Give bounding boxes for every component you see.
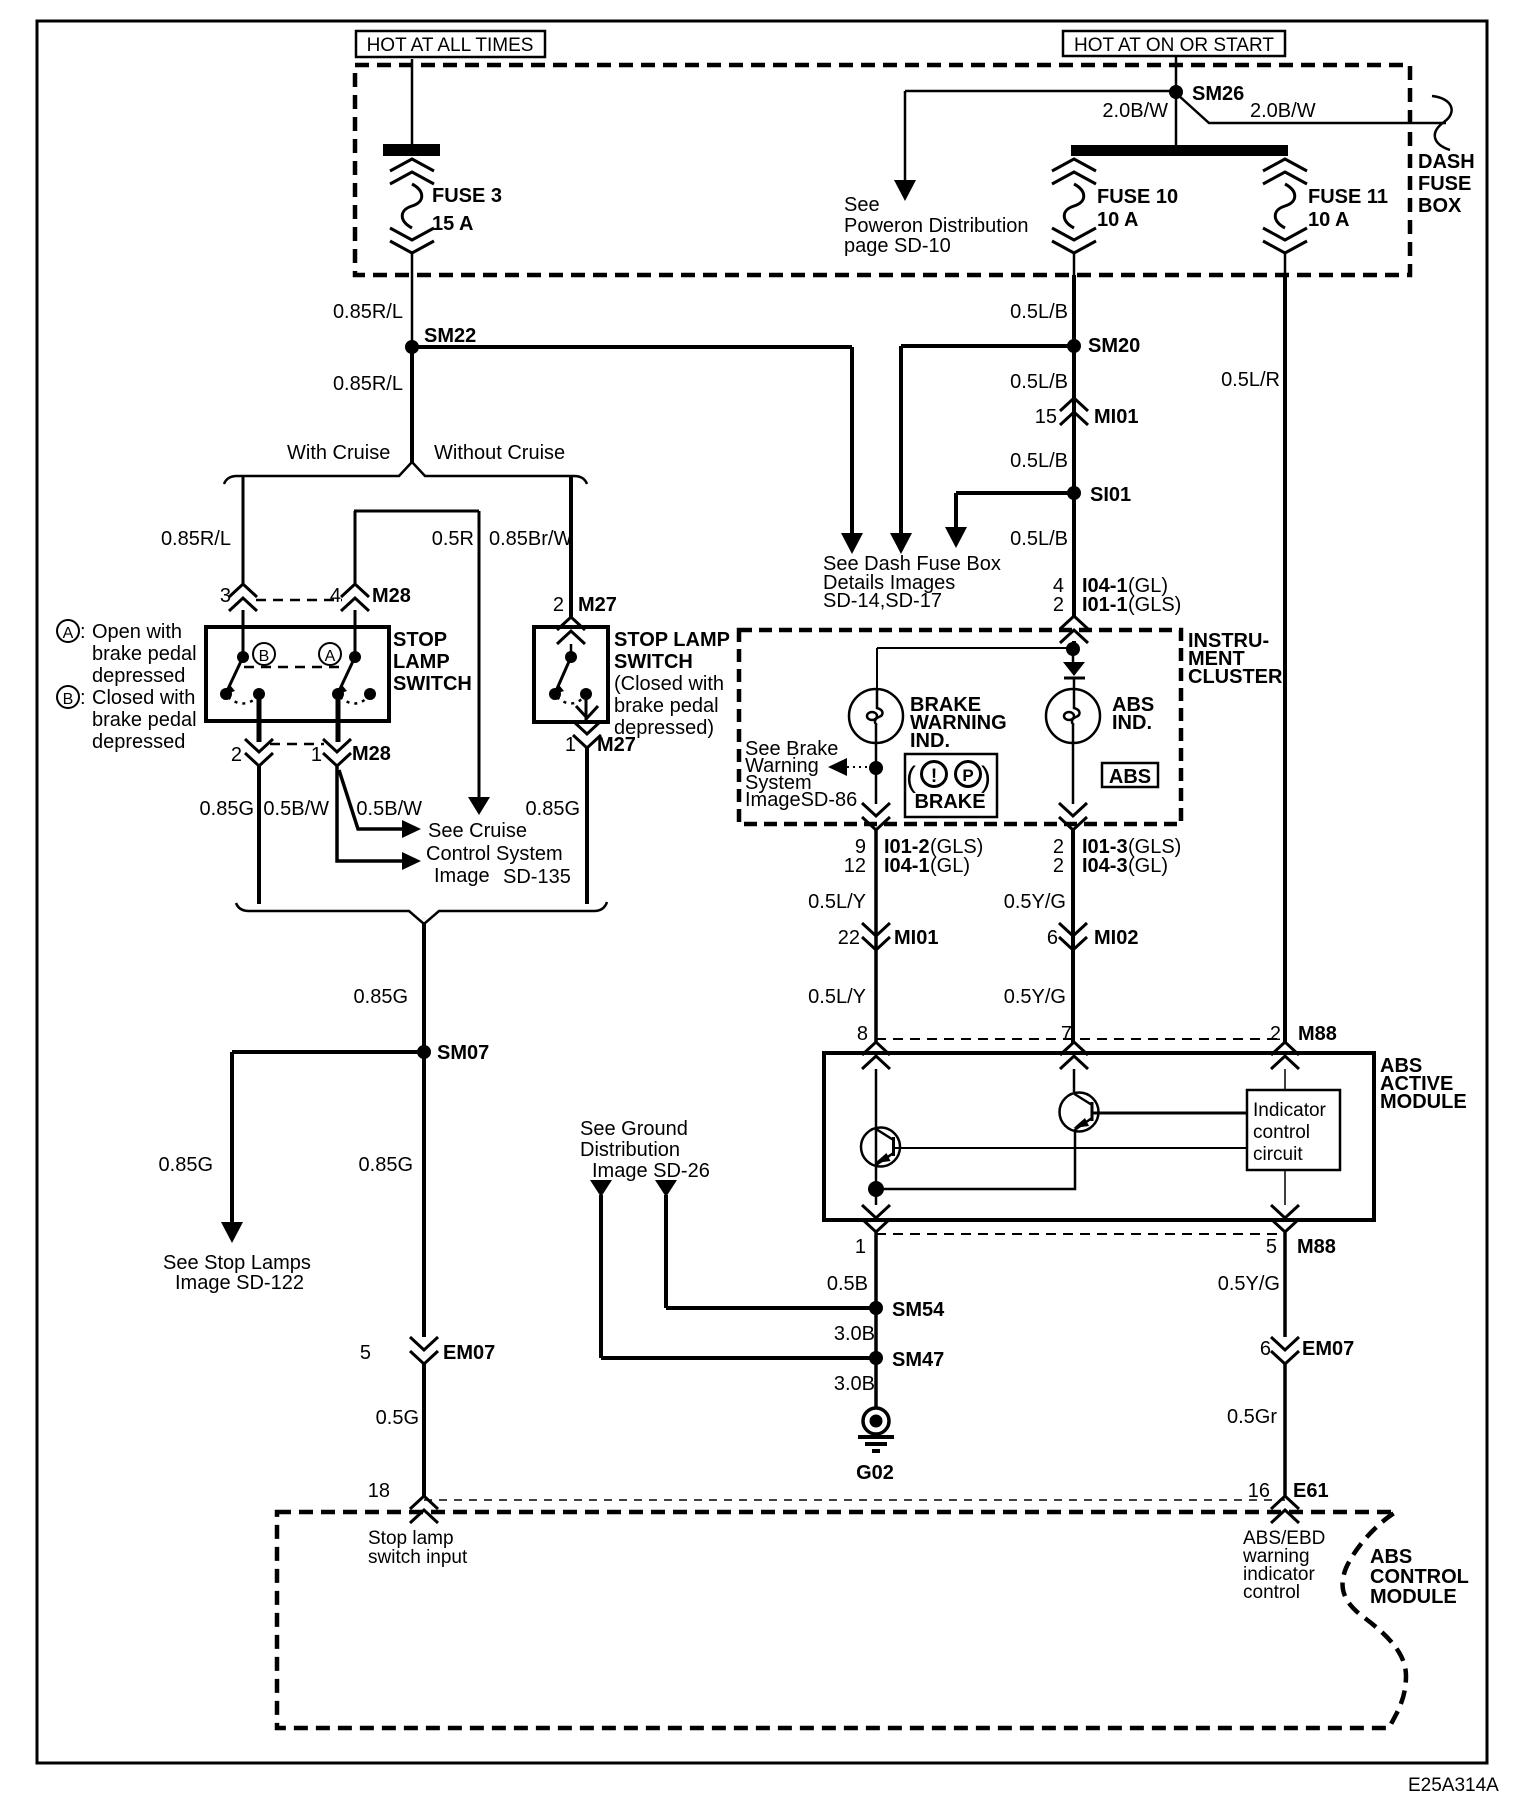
arrow see cruise 1 xyxy=(402,820,421,838)
label HOT AT ALL TIMES xyxy=(356,31,545,57)
connector cluster out brake xyxy=(862,803,890,830)
base wire Q2 to indicator control xyxy=(1092,1112,1247,1115)
connector dashes M88 bottom xyxy=(876,1233,1285,1235)
svg-text:SM07: SM07 xyxy=(437,1042,489,1064)
svg-text:STOP LAMP: STOP LAMP xyxy=(614,629,730,651)
svg-text:10 A: 10 A xyxy=(1308,209,1350,231)
svg-text:3.0B: 3.0B xyxy=(834,1323,875,1345)
svg-text:IND.: IND. xyxy=(910,730,950,752)
wire pin8 through transistor Q1 xyxy=(875,1069,878,1189)
node SM20 xyxy=(1067,339,1081,353)
svg-text:B: B xyxy=(63,691,74,708)
svg-text:Closed with: Closed with xyxy=(92,687,195,709)
svg-text:Image SD-122: Image SD-122 xyxy=(175,1272,304,1294)
svg-text:MI02: MI02 xyxy=(1094,927,1138,949)
wire EM07 to E61 xyxy=(1283,1364,1287,1496)
svg-text:See Cruise: See Cruise xyxy=(428,820,527,842)
svg-text:0.5Gr: 0.5Gr xyxy=(1227,1406,1277,1428)
svg-text:10 A: 10 A xyxy=(1097,209,1139,231)
svg-text:SM47: SM47 xyxy=(892,1349,944,1371)
node Q1 emitter junction xyxy=(868,1181,884,1197)
svg-text:control: control xyxy=(1253,1122,1310,1143)
wire switch M27 out xyxy=(585,694,588,723)
connector cluster out ABS xyxy=(1059,803,1087,830)
arrow see cruise 2 xyxy=(402,852,421,870)
node cluster feed xyxy=(1066,642,1080,656)
svg-text:2.0B/W: 2.0B/W xyxy=(1250,100,1316,122)
fuse bus bar xyxy=(1071,145,1288,156)
svg-text:CONTROL: CONTROL xyxy=(1370,1566,1469,1588)
svg-text:SM22: SM22 xyxy=(424,325,476,347)
fuse F11 xyxy=(1263,159,1307,184)
svg-text:switch input: switch input xyxy=(368,1547,468,1568)
svg-text:8: 8 xyxy=(857,1023,868,1045)
svg-text:2: 2 xyxy=(553,594,564,616)
switch M27 out arrow xyxy=(576,706,598,718)
svg-text:MI01: MI01 xyxy=(1094,406,1138,428)
arrow see stop lamps xyxy=(221,1222,243,1243)
wire fuse11 column xyxy=(1283,275,1287,1042)
svg-text:0.5L/Y: 0.5L/Y xyxy=(808,986,866,1008)
wire ground dist 1 xyxy=(599,1195,603,1358)
svg-text:2.0B/W: 2.0B/W xyxy=(1102,100,1168,122)
svg-text:0.5B/W: 0.5B/W xyxy=(263,798,329,820)
svg-text:0.5L/R: 0.5L/R xyxy=(1221,369,1280,391)
wire SM07 down xyxy=(422,1052,426,1337)
connector dashes M88 top xyxy=(876,1038,1285,1040)
svg-text:Control System: Control System xyxy=(426,843,563,865)
svg-text:brake pedal: brake pedal xyxy=(614,695,719,717)
svg-text:FUSE 10: FUSE 10 xyxy=(1097,186,1178,208)
svg-text:HOT AT ON OR START: HOT AT ON OR START xyxy=(1074,35,1274,56)
svg-text:3.0B: 3.0B xyxy=(834,1373,875,1395)
wire with-cruise pin3 branch xyxy=(242,476,245,584)
svg-text:ABS: ABS xyxy=(1109,766,1151,788)
svg-text:(GL): (GL) xyxy=(1128,855,1168,877)
svg-text:brake pedal: brake pedal xyxy=(92,643,197,665)
brake telltale box xyxy=(905,754,997,817)
wire SM20 branch xyxy=(901,344,1074,348)
svg-text:Stop lamp: Stop lamp xyxy=(368,1528,454,1549)
wire brake lamp down xyxy=(875,743,878,804)
svg-text:See Stop Lamps: See Stop Lamps xyxy=(163,1252,311,1274)
wire brace to SM07 xyxy=(422,922,426,1052)
svg-text:(GL): (GL) xyxy=(930,855,970,877)
svg-text:Image: Image xyxy=(434,865,490,887)
wire cluster feed to brake lamp xyxy=(877,647,1073,649)
diode cluster xyxy=(1072,655,1075,662)
svg-text:15: 15 xyxy=(1035,406,1057,428)
arrow to poweron distribution xyxy=(894,180,916,201)
svg-text:IND.: IND. xyxy=(1112,712,1152,734)
wire brake ind to module xyxy=(874,830,878,1043)
svg-text:Distribution: Distribution xyxy=(580,1139,680,1161)
svg-text:0.5Y/G: 0.5Y/G xyxy=(1218,1273,1280,1295)
switch M27 contacts xyxy=(565,651,577,663)
lamp brake warning ind xyxy=(849,689,903,743)
svg-text:15 A: 15 A xyxy=(432,213,474,235)
svg-text:STOP: STOP xyxy=(393,629,447,651)
svg-text:MODULE: MODULE xyxy=(1370,1586,1457,1608)
svg-text:5: 5 xyxy=(360,1342,371,1364)
fuse F10 xyxy=(1052,159,1096,184)
wire pin2 into switch xyxy=(570,644,573,657)
wire 0.85G below M27 xyxy=(585,748,589,904)
svg-text:2: 2 xyxy=(1053,855,1064,877)
svg-text:With Cruise: With Cruise xyxy=(287,442,390,464)
svg-text:16: 16 xyxy=(1248,1480,1270,1502)
wire 0.5R to cruise control xyxy=(478,511,481,797)
wire into cluster xyxy=(1072,641,1076,651)
svg-text:DASH: DASH xyxy=(1418,151,1475,173)
svg-text:Poweron Distribution: Poweron Distribution xyxy=(844,215,1029,237)
switch B arm xyxy=(227,657,243,691)
svg-text:0.85R/L: 0.85R/L xyxy=(161,528,231,550)
svg-text:0.5B/W: 0.5B/W xyxy=(356,798,422,820)
legend circled B xyxy=(57,686,79,708)
svg-text:M28: M28 xyxy=(372,585,411,607)
svg-text:0.5Y/G: 0.5Y/G xyxy=(1004,891,1066,913)
arrow see dash fuse box 3 xyxy=(945,527,967,548)
svg-text:2: 2 xyxy=(1270,1023,1281,1045)
label HOT AT ON OR START xyxy=(1063,31,1285,56)
svg-text:I01-1: I01-1 xyxy=(1082,594,1128,616)
svg-text:LAMP: LAMP xyxy=(393,651,450,673)
svg-text:0.5L/Y: 0.5L/Y xyxy=(808,891,866,913)
wire switch A out xyxy=(336,694,341,742)
svg-text:12: 12 xyxy=(844,855,866,877)
wire fuse 10 output xyxy=(1073,254,1076,275)
svg-text:0.5L/B: 0.5L/B xyxy=(1010,528,1068,550)
svg-text:): ) xyxy=(981,761,991,794)
arrow see dash fuse box 2 xyxy=(890,533,912,554)
svg-text:0.85G: 0.85G xyxy=(354,986,408,1008)
svg-text:I04-3: I04-3 xyxy=(1082,855,1128,877)
svg-text:FUSE: FUSE xyxy=(1418,173,1471,195)
arrow to cruise control xyxy=(468,797,490,815)
wire SM26 to poweron distribution xyxy=(905,90,1176,93)
legend circled A xyxy=(57,620,79,642)
stop lamp switch box M27 xyxy=(534,627,608,722)
svg-text:Image SD-26: Image SD-26 xyxy=(592,1160,710,1182)
svg-text:ImageSD-86: ImageSD-86 xyxy=(745,789,857,811)
switch contact dashes inside xyxy=(244,666,342,669)
svg-text:M28: M28 xyxy=(352,743,391,765)
switch M27 throw arc xyxy=(557,697,584,704)
connector pin into cluster xyxy=(1060,616,1088,643)
svg-text:0.5G: 0.5G xyxy=(376,1407,419,1429)
svg-text:6: 6 xyxy=(1260,1338,1271,1360)
svg-text:M27: M27 xyxy=(578,594,617,616)
circled B inside switch xyxy=(253,643,275,665)
svg-text:1: 1 xyxy=(311,744,322,766)
wire pin4 into switch xyxy=(354,610,357,658)
connector M88 pin 5 xyxy=(1271,1205,1299,1232)
wire SM22 branch to dash fuse box arrow xyxy=(412,345,852,349)
connector dashes pins 3-4 xyxy=(256,599,342,602)
svg-text:7: 7 xyxy=(1061,1023,1072,1045)
wire pin3 into switch xyxy=(242,610,245,658)
svg-text:0.5L/B: 0.5L/B xyxy=(1010,301,1068,323)
svg-text:brake pedal: brake pedal xyxy=(92,709,197,731)
node SM07 xyxy=(417,1045,431,1059)
svg-text:SM20: SM20 xyxy=(1088,335,1140,357)
svg-text:ABS: ABS xyxy=(1370,1546,1412,1568)
wire Q1 junction to Q2 emitter xyxy=(876,1132,1075,1189)
svg-text:1: 1 xyxy=(855,1236,866,1258)
svg-text:(: ( xyxy=(906,761,916,794)
wire fuse 11 output xyxy=(1284,254,1287,275)
svg-text:M27: M27 xyxy=(597,734,636,756)
svg-text:FUSE 11: FUSE 11 xyxy=(1308,186,1388,208)
svg-text:BOX: BOX xyxy=(1418,195,1462,217)
ground distribution triangle 1 xyxy=(590,1180,612,1197)
wire pin2 to indicator control xyxy=(1284,1069,1286,1090)
svg-text:2: 2 xyxy=(1053,594,1064,616)
svg-text:Indicator: Indicator xyxy=(1253,1100,1327,1121)
svg-text:0.5B: 0.5B xyxy=(827,1273,868,1295)
connector M88 pin 1 xyxy=(862,1205,890,1232)
transistor Q2 xyxy=(1060,1093,1099,1132)
wire switch B out xyxy=(257,694,262,742)
svg-text:P: P xyxy=(962,766,973,785)
svg-text:Without Cruise: Without Cruise xyxy=(434,442,565,464)
svg-text::: : xyxy=(80,621,86,643)
wire junction to pin 1 xyxy=(875,1189,878,1205)
node SM54 xyxy=(666,1306,876,1310)
wire SM07 to stop lamps xyxy=(232,1050,424,1054)
arrow see dash fuse box 1 xyxy=(841,533,863,554)
svg-text:E25A314A: E25A314A xyxy=(1408,1775,1499,1796)
svg-text:18: 18 xyxy=(368,1480,390,1502)
svg-text:SD-135: SD-135 xyxy=(503,866,571,888)
svg-text:control: control xyxy=(1243,1582,1300,1603)
svg-text:2: 2 xyxy=(231,744,242,766)
svg-text:B: B xyxy=(259,648,270,665)
svg-text:5: 5 xyxy=(1266,1236,1277,1258)
wire fuse10 column xyxy=(1072,275,1076,616)
arrow to brake warning system xyxy=(828,758,847,776)
svg-text:I04-1: I04-1 xyxy=(884,855,930,877)
svg-text:0.85R/L: 0.85R/L xyxy=(333,373,403,395)
wire ABS lamp down xyxy=(1072,743,1075,804)
svg-text:EM07: EM07 xyxy=(443,1342,495,1364)
svg-text:See Ground: See Ground xyxy=(580,1118,688,1140)
ground G02 xyxy=(863,1408,889,1434)
switch A throw arc xyxy=(340,697,368,704)
svg-text:Open with: Open with xyxy=(92,621,182,643)
svg-text:A: A xyxy=(325,648,336,665)
wire SI01 branch xyxy=(956,491,1074,495)
svg-text:0.85G: 0.85G xyxy=(359,1154,413,1176)
wire pin1 to ground xyxy=(874,1232,878,1408)
indicator control circuit box xyxy=(1247,1090,1340,1170)
svg-text:MODULE: MODULE xyxy=(1380,1091,1467,1113)
svg-text:(GLS): (GLS) xyxy=(1128,594,1181,616)
svg-text:circuit: circuit xyxy=(1253,1144,1303,1165)
wire SM22 down xyxy=(410,345,414,464)
ABS telltale box xyxy=(1102,763,1158,787)
svg-text:page SD-10: page SD-10 xyxy=(844,235,951,257)
ground distribution triangle 2 xyxy=(655,1180,677,1197)
svg-text:CLUSTER: CLUSTER xyxy=(1188,666,1283,688)
svg-text:0.5L/B: 0.5L/B xyxy=(1010,371,1068,393)
svg-text:(Closed with: (Closed with xyxy=(614,673,724,695)
stop lamp switch box M28 xyxy=(206,627,389,721)
svg-text:G02: G02 xyxy=(856,1462,894,1484)
wire hot-at-all-times to fuse 3 xyxy=(411,59,414,144)
fuse F3 xyxy=(390,159,434,184)
svg-text:0.5R: 0.5R xyxy=(432,528,474,550)
wire pin4 branch upper xyxy=(354,511,357,584)
switch A contacts xyxy=(349,651,361,663)
svg-text:SM26: SM26 xyxy=(1192,83,1244,105)
wire ABS ind to module xyxy=(1071,830,1075,1043)
switch B contacts xyxy=(237,651,249,663)
connector dashes pins 18-16 xyxy=(424,1499,1285,1501)
svg-text:E61: E61 xyxy=(1293,1480,1329,1502)
svg-text:0.85Br/W: 0.85Br/W xyxy=(489,528,572,550)
node SM26 xyxy=(1175,56,1178,145)
svg-text:depressed: depressed xyxy=(92,665,185,687)
svg-text:0.5L/B: 0.5L/B xyxy=(1010,450,1068,472)
switch A arm xyxy=(339,657,355,691)
svg-text:4: 4 xyxy=(330,585,341,607)
svg-text:HOT AT ALL TIMES: HOT AT ALL TIMES xyxy=(367,35,534,56)
svg-text:EM07: EM07 xyxy=(1302,1338,1354,1360)
svg-text:!: ! xyxy=(931,766,937,787)
transistor Q1 xyxy=(861,1128,900,1167)
node SM47 xyxy=(601,1356,876,1360)
wire pin5 down xyxy=(1283,1232,1287,1337)
dash fuse box boundary xyxy=(355,65,1410,275)
switch B throw arc xyxy=(228,697,257,704)
svg-text:SM54: SM54 xyxy=(892,1299,945,1321)
svg-text:6: 6 xyxy=(1047,927,1058,949)
wire SM26 2.0B/W to right xyxy=(1178,95,1446,123)
svg-text:22: 22 xyxy=(838,927,860,949)
svg-text:M88: M88 xyxy=(1297,1236,1336,1258)
instrument cluster boundary xyxy=(739,630,1181,824)
svg-text:0.85G: 0.85G xyxy=(200,798,254,820)
ABS control module boundary xyxy=(277,1512,1406,1728)
node brake warning tap xyxy=(869,761,883,775)
wire 0.85G below pin2 xyxy=(257,766,261,904)
ABS active module box xyxy=(824,1053,1374,1220)
wire pin1 diagonal to cruise note xyxy=(339,770,402,829)
svg-text:SD-14,SD-17: SD-14,SD-17 xyxy=(823,590,942,612)
svg-text:depressed: depressed xyxy=(92,731,185,753)
node SI01 xyxy=(1067,486,1081,500)
wire pin1 down to cruise note xyxy=(337,766,402,861)
base wire Q1 to indicator control xyxy=(893,1147,1247,1149)
switch M27 arm xyxy=(556,657,571,691)
svg-text:FUSE 3: FUSE 3 xyxy=(432,185,502,207)
off-page hook xyxy=(1432,96,1452,150)
svg-text:See: See xyxy=(844,194,880,216)
svg-text:0.85G: 0.85G xyxy=(526,798,580,820)
svg-text:MI01: MI01 xyxy=(894,927,938,949)
svg-text:M88: M88 xyxy=(1298,1023,1337,1045)
wire pin7 to transistor Q2 xyxy=(1073,1069,1076,1092)
svg-text:SWITCH: SWITCH xyxy=(393,673,472,695)
svg-text:SI01: SI01 xyxy=(1090,484,1131,506)
brace merge xyxy=(236,902,607,924)
svg-text:SWITCH: SWITCH xyxy=(614,651,693,673)
brace cruise split xyxy=(224,462,587,484)
node SM22 xyxy=(405,340,419,354)
svg-text:A: A xyxy=(63,625,74,642)
fuse 3 supply bar xyxy=(383,144,440,156)
connector dashes pins 2-1 xyxy=(270,743,324,746)
svg-text:0.85R/L: 0.85R/L xyxy=(333,301,403,323)
wire ground dist 2 xyxy=(664,1195,668,1308)
svg-text:BRAKE: BRAKE xyxy=(914,791,985,813)
wire EM07 to ABS control module xyxy=(422,1364,426,1496)
circled A inside switch xyxy=(319,643,341,665)
svg-text:0.5Y/G: 0.5Y/G xyxy=(1004,986,1066,1008)
wire fuse 3 output xyxy=(411,254,414,347)
lamp ABS ind xyxy=(1046,689,1100,743)
svg-text:0.85G: 0.85G xyxy=(159,1154,213,1176)
wire without-cruise branch xyxy=(569,476,573,619)
svg-text::: : xyxy=(80,687,86,709)
